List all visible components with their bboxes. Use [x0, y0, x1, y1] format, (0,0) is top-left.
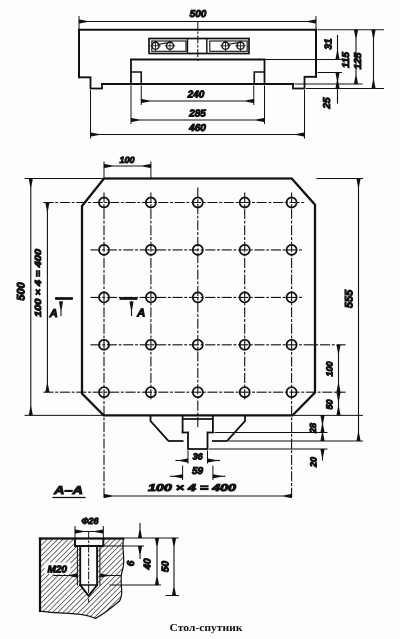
hole centerline: [88, 532, 90, 603]
svg-text:460: 460: [188, 123, 206, 134]
thread dim left arrow: [54, 575, 77, 577]
dim 240 line: [141, 100, 254, 102]
svg-text:100 × 4 = 400: 100 × 4 = 400: [148, 483, 237, 494]
dim 36 left arrow: [176, 460, 188, 462]
svg-text:20: 20: [309, 457, 319, 468]
tongue top extension line: [265, 59, 345, 61]
svg-text:25: 25: [322, 97, 333, 110]
svg-text:31: 31: [324, 38, 335, 50]
dim 25 tail: [337, 89, 339, 104]
svg-text:240: 240: [187, 89, 205, 100]
dim 500 line: [79, 21, 316, 23]
svg-text:40: 40: [143, 558, 154, 571]
dim 555 right line: [358, 179, 360, 442]
left lip step: [79, 77, 102, 88]
dim 100 top extension lines: [104, 162, 151, 179]
block top edge: [40, 537, 124, 539]
block left edge: [39, 539, 41, 612]
dim 115 line: [355, 30, 357, 84]
tongue left slant: [151, 415, 183, 441]
dim 28 line: [322, 415, 324, 432]
svg-text:50: 50: [325, 399, 335, 409]
link between circles 1-2: [158, 43, 167, 45]
column centerline 5: [291, 193, 293, 500]
extension: key wide bottom right: [215, 432, 327, 434]
dim 500 left line: [30, 179, 32, 416]
svg-text:555: 555: [344, 289, 356, 308]
clamp plate outer box: [149, 39, 249, 54]
dim 25 line: [337, 73, 339, 89]
extension: counterbore bottom right: [105, 545, 144, 547]
clamp plate inner box right: [210, 41, 247, 51]
body left edge: [78, 30, 80, 78]
section plane bar right: [121, 297, 136, 300]
right extension: top edge: [318, 29, 384, 31]
column centerline 2: [150, 193, 152, 401]
dim 6 lower arrow: [139, 546, 141, 559]
section label underline: [53, 497, 85, 499]
dim 125 line: [373, 30, 375, 89]
dim 59 right arrow: [213, 475, 225, 477]
row centerline 5: [44, 391, 345, 393]
column centerline 4: [244, 193, 246, 401]
svg-text:500: 500: [190, 9, 207, 20]
extension: plate bottom edge right: [295, 414, 363, 416]
block break line bottom: [40, 601, 120, 619]
counterbore walls: [75, 539, 103, 547]
plate outline with chamfered corners: [82, 179, 315, 416]
row centerline 4: [91, 344, 345, 346]
clamp plate divider left: [187, 39, 189, 54]
clamp plate inner box left: [152, 41, 186, 51]
extension: plate top edge right: [317, 178, 363, 180]
key narrow part: [188, 433, 208, 450]
svg-text:59: 59: [192, 466, 204, 477]
dim 460 line: [91, 134, 305, 136]
front view centerline: [197, 23, 199, 63]
dim 31 line: [337, 36, 339, 60]
row centerline 3 (cutting plane): [91, 296, 304, 298]
dim 500 extension lines: [79, 17, 316, 29]
tongue right side: [264, 60, 266, 85]
dim F26 extension lines: [75, 527, 103, 541]
dim 100 top line: [104, 165, 151, 167]
column centerline 1: [103, 193, 105, 500]
clamp plate divider right: [206, 39, 208, 54]
block break line right: [120, 539, 124, 602]
bolt circle 1: [152, 42, 159, 49]
dim 40 line: [156, 538, 158, 585]
dim 240 extension lines: [141, 86, 254, 105]
25 fixture holes grid: [99, 198, 297, 398]
hatched block body: [40, 539, 124, 619]
svg-text:100: 100: [325, 361, 335, 376]
bolt circle 3: [222, 42, 229, 49]
svg-text:36: 36: [193, 452, 204, 462]
dim 20 upper arrow: [322, 433, 324, 441]
dim 460 extension lines: [91, 91, 305, 139]
svg-text:100 × 4 = 400: 100 × 4 = 400: [33, 249, 43, 317]
row centerline 2: [91, 249, 304, 251]
thread dim right arrow: [100, 575, 120, 577]
svg-text:125: 125: [353, 52, 364, 69]
svg-text:М20: М20: [48, 565, 68, 576]
row centerline 1: [44, 202, 304, 204]
key wide part: [183, 415, 213, 432]
bolt circle 4: [237, 42, 244, 49]
key wide part bottom: [183, 432, 213, 434]
dim 36 extension lines: [188, 451, 208, 463]
tongue top edge: [131, 59, 265, 61]
dim 100x4=400 bottom line: [104, 495, 292, 497]
dim 59 extension lines: [183, 466, 213, 480]
svg-text:500: 500: [16, 281, 28, 300]
right extension: notch bottom: [307, 88, 384, 90]
section arrow right: [131, 302, 133, 316]
tongue left side: [130, 60, 132, 85]
tapped hole walls: [80, 546, 97, 585]
extension: thread bottom right: [110, 584, 161, 586]
extension: block top right: [126, 537, 179, 539]
extension: drill point right: [166, 595, 179, 597]
svg-text:115: 115: [341, 52, 352, 68]
right extension: body bottom: [295, 83, 362, 85]
svg-text:Стол-спутник: Стол-спутник: [170, 623, 244, 634]
svg-text:28: 28: [308, 423, 318, 434]
right extension: tongue step level: [318, 72, 342, 74]
tongue right inner step: [254, 72, 264, 84]
svg-text:А: А: [49, 308, 58, 320]
body bottom edge: [102, 83, 293, 85]
body right edge: [315, 30, 317, 77]
right lip step: [293, 77, 316, 89]
svg-text:А–А: А–А: [53, 485, 83, 497]
svg-text:50: 50: [161, 561, 172, 573]
hole whiteout: [75, 539, 103, 596]
dim 100x4=400 left line: [46, 203, 48, 393]
svg-text:285: 285: [188, 108, 206, 119]
extension: plate top edge left: [25, 178, 104, 180]
body top edge: [79, 29, 316, 31]
svg-text:Ф26: Ф26: [81, 516, 99, 526]
dim 285 line: [131, 119, 265, 121]
svg-text:А: А: [136, 308, 145, 320]
dim 59 left arrow: [171, 475, 183, 477]
dim 285 extension lines: [131, 86, 265, 124]
section plane bar left: [57, 297, 72, 300]
extension: tongue bottom right: [229, 440, 363, 442]
counterbore shoulder: [75, 545, 103, 547]
dim 50 line: [173, 538, 175, 596]
drill point: [80, 585, 97, 596]
bolt circle 2: [166, 42, 173, 49]
svg-text:100: 100: [119, 155, 134, 165]
dim 20 lower arrow: [322, 449, 324, 460]
column centerline 3 (axis): [197, 188, 199, 427]
extension: key narrow bottom right: [210, 448, 328, 450]
M20 label backing: [45, 563, 71, 575]
dim 50 right line: [338, 392, 340, 415]
link between circles 3-4: [228, 43, 237, 45]
dim 100 right line: [338, 345, 340, 392]
tongue left inner step: [131, 72, 141, 84]
dim 6 upper arrow: [139, 524, 141, 539]
tongue right slant: [213, 415, 245, 441]
section arrow left: [60, 302, 62, 316]
svg-text:6: 6: [126, 560, 137, 566]
dim 36 right arrow: [208, 460, 220, 462]
extension: plate bottom edge left: [25, 414, 104, 416]
thread bottom line: [80, 584, 97, 586]
thread major diameter lines: [77, 546, 100, 585]
dim F26 line: [75, 531, 103, 533]
